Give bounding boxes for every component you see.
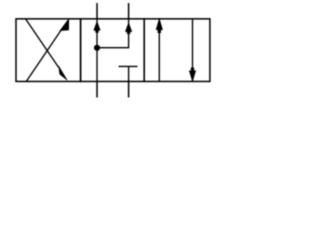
valve body box 1 (left envelope) (16, 19, 81, 82)
valve body box 2 (center envelope) (81, 19, 145, 82)
flow path arrow B (left box, crossed, down-right) (26, 19, 67, 80)
junction dot (center box) (94, 45, 100, 51)
port line P3 (center box, bottom-left stub) (96, 81, 98, 97)
flow path line (center box, left vertical through passage) (96, 19, 98, 82)
arrowhead up (center box, left passage) (94, 22, 100, 31)
port line P2 (center box, top-right stub) (128, 3, 130, 19)
port line P4 (center box, bottom-right stub) (128, 81, 130, 97)
flow path arrow down (right box, right passage) (189, 19, 195, 82)
valve body box 3 (right envelope) (144, 19, 210, 82)
closed port symbol T (center box, blocked tank line) (119, 66, 138, 81)
flow path arrow A (left box, crossed, up-right) (26, 19, 68, 82)
port line P1 (center box, top-left stub) (96, 3, 98, 19)
wire (center box, branch from junction to right passage) (97, 19, 129, 48)
arrowhead up (center box, right passage) (126, 23, 132, 32)
flow path arrow up (right box, left passage) (156, 19, 162, 82)
